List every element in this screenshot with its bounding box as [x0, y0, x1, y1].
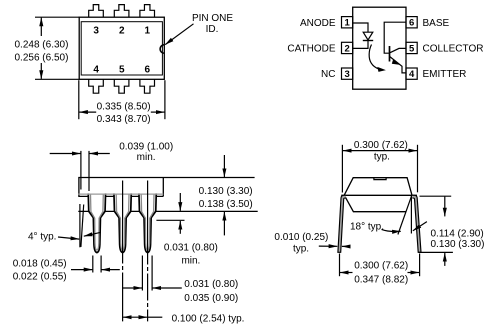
svg-text:5: 5 — [409, 43, 415, 54]
svg-text:0.039 (1.00): 0.039 (1.00) — [119, 141, 173, 152]
dimension 0.130/0.138: upper arrow — [223, 155, 225, 177]
schematic: pin 2 box — [342, 42, 353, 53]
svg-text:4° typ.: 4° typ. — [28, 232, 56, 243]
svg-text:2: 2 — [344, 43, 349, 54]
dimension 4 deg: second arrow — [84, 232, 101, 236]
top view: pin 6 bottom tab — [140, 79, 155, 93]
dimension 0.130/0.138: lower arrow — [223, 212, 225, 236]
side view: front lead 3 — [139, 193, 156, 252]
schematic: LED anode wire from pin 1 — [353, 23, 368, 32]
dimension 0.018/0.022: left arrow — [71, 269, 92, 271]
side view: body parting line (gray) — [78, 193, 163, 195]
svg-text:6: 6 — [409, 18, 414, 29]
svg-text:1: 1 — [145, 26, 151, 37]
end view: body index notch — [374, 178, 386, 180]
svg-text:0.300 (7.62): 0.300 (7.62) — [354, 260, 408, 271]
side view: lead standoff line (datum for 0.130/0.138 and 0.031 min) — [78, 210, 257, 212]
schematic: LED cathode wire to pin 2 — [353, 41, 368, 49]
svg-text:BASE: BASE — [423, 18, 450, 29]
dimension 0.031 min: lower arrow — [179, 221, 181, 234]
svg-text:0.130 (3.30): 0.130 (3.30) — [199, 186, 253, 197]
dimension 0.335/0.343: dimension line left arrow — [79, 111, 96, 113]
end view: vertical reference line for 18 deg — [410, 197, 412, 234]
side view: body left edge — [78, 178, 80, 197]
svg-text:0.018 (0.45): 0.018 (0.45) — [13, 258, 67, 269]
svg-text:4: 4 — [409, 69, 415, 80]
svg-text:4: 4 — [93, 65, 99, 76]
dimension 0.031/0.035: left extension line — [141, 256, 143, 291]
schematic: pin 1 box — [342, 17, 353, 28]
end view: left lead — [338, 195, 346, 252]
dimension 0.114/0.130: upper extension line — [420, 195, 452, 197]
dimension 18 deg: second arrow — [413, 222, 427, 231]
dimension 0.335/0.343: left extension line — [78, 80, 80, 119]
end view dimension 0.300 typ: dimension line with outward arrows — [343, 150, 417, 152]
PIN ONE ID. leader arrow — [165, 24, 193, 45]
dimension 0.100: tail — [148, 316, 163, 318]
side view: front lead 1 — [88, 193, 105, 252]
dimension 0.248/0.256: dimension line lower arrow — [40, 63, 42, 79]
dimension 0.018/0.022: right arrow — [102, 269, 120, 271]
end view dimension 0.300 typ: right extension line — [417, 145, 419, 193]
top view: pin one ID notch — [160, 45, 164, 54]
side view: body bottom edge segments — [78, 195, 163, 197]
svg-text:0.031 (0.80): 0.031 (0.80) — [184, 279, 238, 290]
dimension 0.300/0.347: right arrow — [408, 272, 420, 274]
schematic: pin 3 box — [342, 68, 353, 79]
svg-text:EMITTER: EMITTER — [423, 69, 467, 80]
schematic: phototransistor base wire from pin 6 — [384, 22, 406, 53]
schematic: emitter arrowhead — [392, 59, 400, 65]
side view: front lead 2 — [114, 193, 131, 252]
dimension 0.018/0.022: right extension line — [100, 256, 102, 273]
schematic: pin 4 box — [406, 68, 417, 79]
dimension 18 deg: leader arrow — [382, 229, 401, 231]
dimension 0.018/0.022: left extension line — [92, 256, 94, 273]
top view: pin 2 top tab — [114, 5, 129, 18]
svg-text:0.114 (2.90): 0.114 (2.90) — [431, 228, 484, 239]
svg-text:0.347 (8.82): 0.347 (8.82) — [354, 275, 408, 286]
svg-text:0.031 (0.80): 0.031 (0.80) — [164, 243, 218, 254]
schematic: optocoupler body U1 — [353, 7, 406, 89]
svg-text:0.100 (2.54) typ.: 0.100 (2.54) typ. — [172, 313, 245, 324]
dimension 4 deg: vertical construction line — [79, 204, 81, 247]
svg-text:0.138 (3.50): 0.138 (3.50) — [199, 199, 253, 210]
svg-text:typ.: typ. — [374, 152, 390, 163]
schematic: LED D1 cathode bar — [363, 40, 373, 42]
side view: lead taper-end line (datum for 0.031 min) — [156, 219, 184, 221]
svg-text:0.343 (8.70): 0.343 (8.70) — [97, 114, 151, 125]
schematic: phototransistor emitter wire to pin 4 — [390, 56, 407, 73]
top view: pin 4 bottom tab — [89, 79, 104, 93]
dimension 0.114/0.130: lower arrow — [444, 253, 446, 266]
svg-text:6: 6 — [145, 65, 151, 76]
end view: lead bend line across body — [341, 194, 417, 196]
svg-text:ID.: ID. — [206, 24, 219, 35]
top view: pin 1 top tab — [140, 5, 155, 18]
dimension 0.100: dimension line with outward arrows — [123, 316, 147, 318]
dimension 0.039 min: left arrow — [50, 153, 81, 155]
dimension 0.114/0.130: upper arrow — [444, 197, 446, 217]
svg-text:0.010 (0.25): 0.010 (0.25) — [274, 232, 328, 243]
dimension 0.010 typ: right arrow — [342, 245, 351, 247]
dimension 0.031 min: upper arrow — [179, 193, 181, 211]
dimension 0.335/0.343: right extension line — [164, 80, 166, 119]
dimension 0.031/0.035: right extension line — [151, 256, 153, 291]
svg-text:0.300 (7.62): 0.300 (7.62) — [354, 140, 408, 151]
dimension 4 deg: leader arrow — [58, 237, 79, 239]
dimension 0.335/0.343: dimension line right arrow — [151, 111, 165, 113]
dimension 0.300/0.347: right extension line — [419, 254, 421, 277]
end view: body outline — [344, 178, 412, 212]
top view: package body inner outline — [81, 22, 162, 75]
dimension 0.010 typ: left arrow — [319, 245, 338, 247]
svg-text:0.022 (0.55): 0.022 (0.55) — [13, 271, 67, 282]
svg-text:1: 1 — [344, 18, 350, 29]
end view: right lead — [412, 195, 421, 252]
svg-text:CATHODE: CATHODE — [287, 44, 335, 55]
dimension 0.039 min: left extension line — [80, 151, 82, 190]
side view: body right edge — [162, 178, 164, 197]
svg-text:PIN ONE: PIN ONE — [192, 13, 233, 24]
end view dimension 0.300 typ: left extension line — [341, 145, 343, 193]
dimension 0.114/0.130: lower extension line — [419, 251, 453, 253]
svg-text:typ.: typ. — [293, 243, 309, 254]
svg-text:0.256 (6.50): 0.256 (6.50) — [15, 52, 69, 63]
dimension 0.248/0.256: bottom extension line — [35, 78, 79, 80]
schematic: light emission arrow — [369, 45, 378, 69]
top view: pin 5 bottom tab — [114, 79, 129, 93]
dimension 0.031/0.035: left arrow — [123, 287, 142, 289]
schematic: phototransistor Q1 base bar — [389, 46, 391, 62]
svg-text:3: 3 — [93, 26, 99, 37]
svg-text:min.: min. — [181, 256, 200, 267]
schematic: pin 5 box — [406, 42, 417, 53]
dimension 0.031/0.035: right arrow — [153, 287, 182, 289]
dimension 0.100: pin 2 centerline — [122, 181, 124, 322]
dimension 0.100: pin 3 centerline — [147, 181, 149, 322]
side view: back row lead 1 (gray) — [91, 195, 104, 251]
top view: pin 3 top tab — [89, 5, 104, 18]
svg-text:NC: NC — [321, 69, 335, 80]
svg-text:ANODE: ANODE — [300, 18, 336, 29]
schematic: phototransistor collector wire to pin 5 — [390, 48, 407, 53]
side view: body top edge (extended right as datum for 0.130/0.138) — [78, 177, 254, 179]
schematic: LED D1 triangle — [363, 32, 373, 40]
svg-text:2: 2 — [119, 26, 125, 37]
svg-text:0.130 (3.30): 0.130 (3.30) — [431, 239, 485, 250]
svg-text:min.: min. — [137, 152, 156, 163]
side view: back row lead 3 (gray) — [141, 195, 154, 251]
svg-text:0.335 (8.50): 0.335 (8.50) — [97, 102, 151, 113]
svg-text:3: 3 — [344, 69, 349, 80]
side view: back row lead 2 (gray) — [116, 195, 129, 251]
dimension 0.248/0.256: top extension line — [35, 16, 79, 18]
svg-text:0.035 (0.90): 0.035 (0.90) — [184, 293, 238, 304]
dimension 0.248/0.256: dimension line upper arrow — [40, 18, 42, 36]
top view: package body outer outline — [79, 17, 164, 79]
svg-text:5: 5 — [119, 65, 125, 76]
dimension 0.300/0.347: left arrow — [340, 272, 353, 274]
end view: body draft edge extended (18 deg reference) — [398, 195, 412, 235]
dimension 0.039 min: right extension line — [88, 151, 90, 191]
svg-text:18° typ.: 18° typ. — [350, 222, 384, 233]
dimension 4 deg: tilted construction line — [81, 205, 84, 247]
dimension 0.039 min: right arrow — [89, 153, 109, 155]
dimension 0.300/0.347: left extension line — [339, 254, 341, 277]
svg-text:COLLECTOR: COLLECTOR — [423, 44, 484, 55]
schematic: pin 6 box — [406, 17, 417, 28]
svg-text:0.248 (6.30): 0.248 (6.30) — [15, 40, 69, 51]
